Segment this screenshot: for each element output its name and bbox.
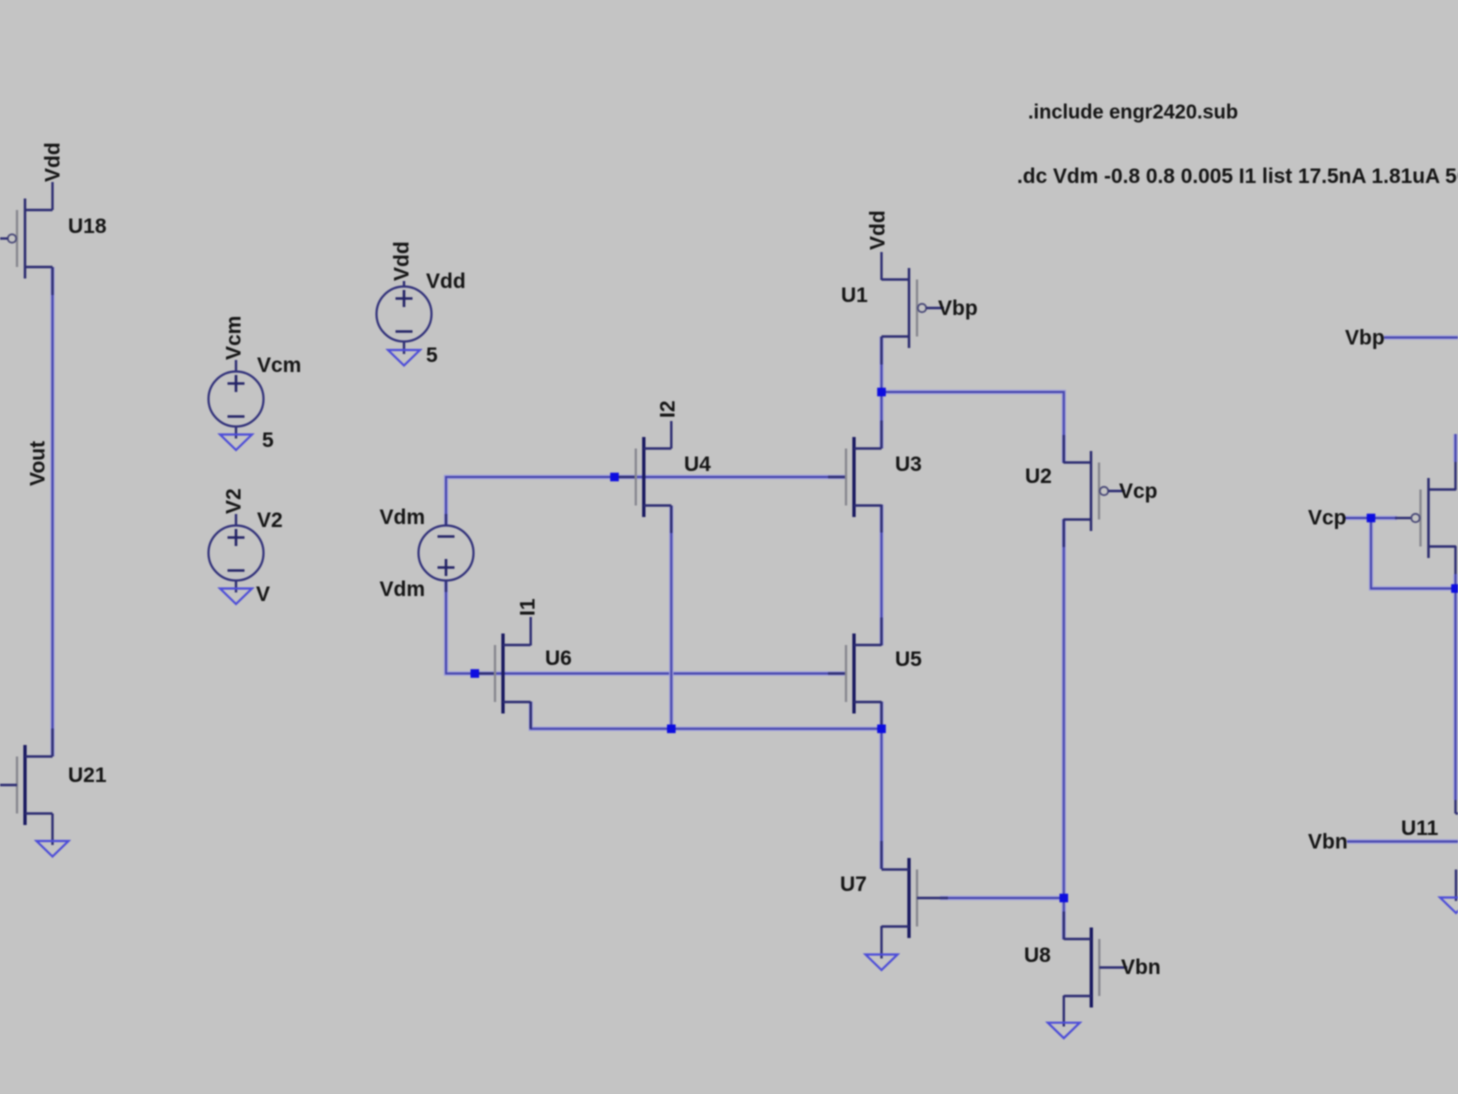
ground under U7	[866, 955, 898, 971]
svg-text:U4: U4	[684, 453, 711, 476]
svg-text:U8: U8	[1024, 944, 1051, 967]
wire U18 source stub	[51, 267, 53, 295]
node top mirror junction	[877, 388, 886, 397]
node Vcp junction right	[1367, 514, 1376, 523]
wire Vcm source bottom stub	[235, 427, 237, 439]
transistor U2	[1064, 451, 1126, 531]
svg-text:U2: U2	[1025, 465, 1052, 488]
svg-text:U11: U11	[1401, 817, 1439, 840]
svg-text:V: V	[256, 583, 270, 606]
wire U2 source stub	[1063, 435, 1065, 463]
wire Vcp net right	[1343, 516, 1397, 520]
wire right pmos drain stub	[1454, 546, 1456, 574]
voltage source Vdm	[419, 526, 474, 581]
svg-text:.include engr2420.sub: .include engr2420.sub	[1028, 102, 1238, 124]
svg-text:Vdd: Vdd	[391, 241, 414, 281]
wire U1 drain stub	[880, 337, 882, 365]
wire to U8 drain	[1062, 898, 1066, 940]
wire right edge upper	[1453, 434, 1457, 462]
svg-text:I1: I1	[517, 598, 540, 616]
wire U5 gate stub	[828, 672, 846, 674]
wire right pmos source stub	[1454, 462, 1456, 490]
svg-text:Vbp: Vbp	[938, 297, 978, 320]
wire U2 drain stub	[1063, 519, 1065, 547]
svg-text:U18: U18	[68, 215, 107, 238]
svg-text:V2: V2	[223, 488, 246, 514]
svg-text:U7: U7	[840, 873, 867, 896]
wire U6 gate stub	[477, 672, 495, 674]
wire U11 drain stub	[1454, 800, 1456, 814]
ground under Vdd source	[388, 350, 420, 366]
svg-text:U5: U5	[895, 648, 922, 671]
wire U8 drain stub	[1063, 912, 1065, 940]
transistor U6	[495, 634, 531, 714]
svg-text:Vcm: Vcm	[223, 316, 246, 360]
wire top node to U2	[882, 392, 1064, 463]
svg-text:Vout: Vout	[27, 441, 50, 486]
wire Vdd source bottom stub	[403, 342, 405, 355]
svg-text:Vcp: Vcp	[1308, 507, 1347, 530]
node Vcm wire junction	[610, 473, 619, 482]
svg-text:5: 5	[262, 429, 274, 452]
transistor U18	[8, 199, 53, 279]
svg-text:Vdd: Vdd	[426, 270, 466, 293]
wire U5 source to U7 drain	[879, 702, 883, 870]
svg-text:Vdm: Vdm	[379, 506, 425, 529]
node tail junction A	[667, 725, 676, 734]
wire Vbp net right	[1384, 335, 1458, 339]
wire U3 drain	[879, 392, 883, 449]
wire V2 source top stub	[235, 514, 237, 526]
wire Vdd source top stub	[403, 281, 405, 287]
wire U2 drain down	[1062, 519, 1066, 898]
wire Vbn net right	[1347, 839, 1458, 843]
wire Vdm- net	[446, 581, 846, 674]
svg-text:Vbp: Vbp	[1345, 327, 1385, 350]
voltage source Vdd	[377, 287, 432, 342]
svg-text:Vdd: Vdd	[867, 210, 890, 250]
transistor U7	[882, 858, 949, 938]
transistor	[1411, 478, 1456, 558]
node tail junction B	[877, 725, 886, 734]
wire U7 source stub	[880, 926, 882, 959]
wire U11 drain lead	[1456, 812, 1458, 814]
svg-text:V2: V2	[257, 509, 283, 532]
transistor U1	[882, 268, 945, 348]
transistor U21	[17, 745, 53, 825]
wire U3 drain stub	[880, 421, 882, 449]
svg-text:Vdd: Vdd	[42, 142, 65, 182]
svg-text:U6: U6	[545, 647, 572, 670]
svg-text:Vbn: Vbn	[1308, 831, 1348, 854]
wire U11 source stub	[1455, 870, 1457, 902]
wire U5 drain stub	[880, 618, 882, 646]
svg-text:Vcp: Vcp	[1119, 480, 1158, 503]
wire Vout net	[50, 267, 54, 757]
node Vdm wire junction	[471, 669, 480, 678]
wire U21 source stub	[51, 814, 53, 846]
wire U18 gate lead	[0, 237, 8, 239]
wire U7 drain stub	[880, 841, 882, 869]
wire Vdm bottom stub	[445, 581, 447, 593]
wire U8 source stub	[1063, 996, 1065, 1027]
transistor U8	[1064, 928, 1128, 1008]
transistor U4	[636, 437, 672, 517]
wire U3 gate stub	[828, 476, 846, 478]
wire U18 drain stub to Vdd	[51, 182, 53, 210]
wire U6 source stub	[530, 702, 532, 729]
wire U3 source stub	[880, 505, 882, 533]
transistor U5	[846, 634, 882, 714]
wire right pmos gate stub	[1395, 517, 1411, 519]
svg-text:5: 5	[426, 344, 438, 367]
voltage source V2	[209, 526, 264, 581]
svg-text:I2: I2	[657, 400, 680, 418]
wire right edge lower	[1453, 574, 1457, 800]
svg-text:U3: U3	[895, 453, 922, 476]
ground under U11	[1440, 898, 1458, 914]
wire Vdm top stub	[445, 514, 447, 526]
wire tail net from U6	[531, 702, 882, 729]
svg-text:Vcm: Vcm	[257, 354, 301, 377]
voltage source Vcm	[209, 372, 264, 427]
svg-text:U1: U1	[841, 284, 868, 307]
ground under U8	[1048, 1023, 1080, 1038]
wire Vcm net	[446, 477, 846, 526]
transistor U3	[846, 437, 882, 517]
wire U4 source stub	[670, 506, 672, 534]
svg-text:Vbn: Vbn	[1121, 956, 1161, 979]
node right edge junction	[1451, 584, 1458, 593]
node U7 gate junction	[1060, 894, 1069, 903]
svg-text:U21: U21	[68, 764, 107, 787]
wire U3 source to U5 drain	[879, 505, 883, 646]
wire V2 source bottom stub	[235, 581, 237, 593]
wire U4 gate stub	[618, 476, 636, 478]
ground under U21	[37, 841, 69, 857]
wire U5 source stub	[880, 702, 882, 730]
ground under Vcm	[220, 435, 252, 451]
wire U1 drain	[879, 337, 883, 393]
wire U4 drain stub I2	[670, 421, 672, 449]
svg-text:Vdm: Vdm	[379, 578, 425, 601]
wire U4 drain to tail	[669, 506, 673, 729]
wire Vcm source top stub	[235, 360, 237, 372]
wire U6 drain stub I1	[530, 617, 532, 646]
wire U21 gate lead	[0, 784, 17, 786]
wire U7 gate net	[940, 896, 1064, 900]
wire Vcp junction down	[1371, 518, 1456, 589]
svg-text:.dc Vdm -0.8 0.8 0.005 I1 list: .dc Vdm -0.8 0.8 0.005 I1 list 17.5nA 1.…	[1017, 165, 1458, 188]
wire U21 drain stub	[51, 729, 53, 757]
ground under V2	[220, 589, 252, 605]
wire U1 source stub to Vdd	[880, 252, 882, 280]
